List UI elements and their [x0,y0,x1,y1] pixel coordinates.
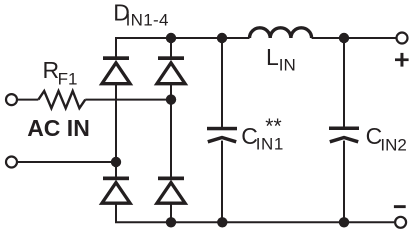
inductor LIN [250,28,312,38]
junction dot: bottom rail at mid column [166,217,176,227]
wire: mid column bottom stub [170,204,172,222]
svg-text:DIN1-4: DIN1-4 [113,0,169,29]
wire: CIN1 bottom lead [221,141,223,223]
resistor RF1 [38,91,85,108]
wire: CIN2 bottom lead [343,141,345,223]
diode DIN1 (top-left) [102,56,130,83]
wire: mid column top stub [170,38,172,57]
svg-text:CIN2: CIN2 [366,123,407,154]
wire: bottom AC lead from terminal to node A [18,161,116,163]
label: minus output polarity [394,205,406,208]
wire: CIN1 top lead [221,38,223,127]
junction dot: node A (AC return to bridge) [111,157,121,167]
wire: top AC lead from terminal to RF1 [18,99,39,101]
svg-text:AC IN: AC IN [27,115,90,141]
terminal: AC input bottom [6,157,17,168]
svg-text:**: ** [265,115,281,138]
capacitor CIN2 [329,127,359,142]
junction dot: top rail at mid column [166,33,176,43]
junction dot: bottom rail at CIN2 [339,217,349,227]
diode DIN2 (top-right) [157,56,185,83]
wire: left column middle (through node A) [115,85,117,178]
capacitor CIN1 [207,127,237,142]
junction dot: bottom rail at CIN1 [217,217,227,227]
label: plus output polarity [395,53,409,67]
svg-text:LIN: LIN [266,44,296,75]
terminal: AC input top [6,94,17,105]
wire: top rail right (inductor to + terminal) [312,37,396,39]
terminal: output minus [395,217,406,228]
terminal: output plus [397,33,408,44]
wire: RF1 to bridge node B [85,99,171,101]
wire: CIN2 top lead [343,38,345,127]
svg-text:RF1: RF1 [43,57,78,88]
wire: top rail left (bridge output + to inductor) [116,38,250,57]
diode DIN3 (bottom-left) [102,177,130,204]
junction dot: top rail at CIN2 [339,33,349,43]
junction dot: top rail at CIN1 [217,33,227,43]
wire: bottom rail [116,204,394,222]
diode DIN4 (bottom-right) [157,177,185,204]
wire: mid column middle (through node B) [170,85,172,178]
junction dot: node B (RF1 to bridge) [166,94,176,104]
